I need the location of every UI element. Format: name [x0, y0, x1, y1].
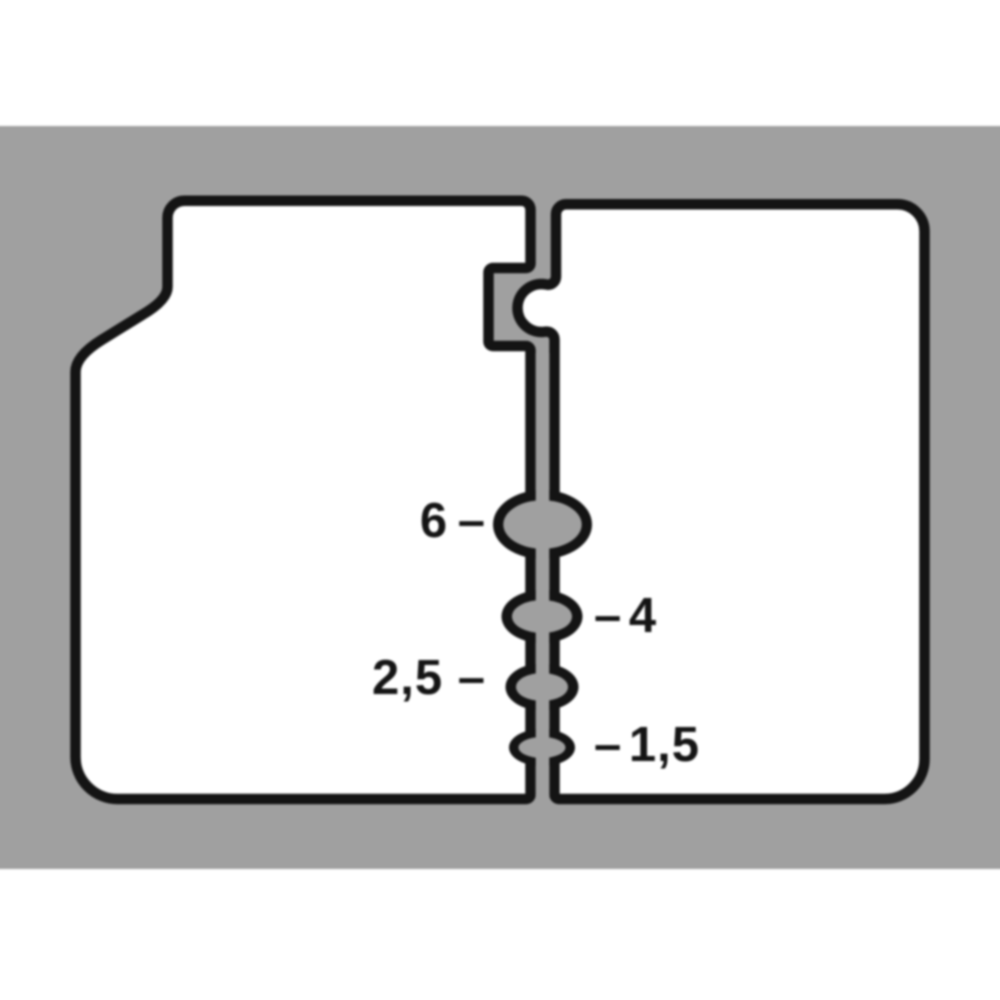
svg-text:– 1,5: – 1,5: [594, 718, 700, 772]
svg-text:2,5 –: 2,5 –: [372, 651, 486, 705]
svg-text:6 –: 6 –: [420, 494, 486, 548]
svg-text:– 4: – 4: [594, 589, 657, 643]
